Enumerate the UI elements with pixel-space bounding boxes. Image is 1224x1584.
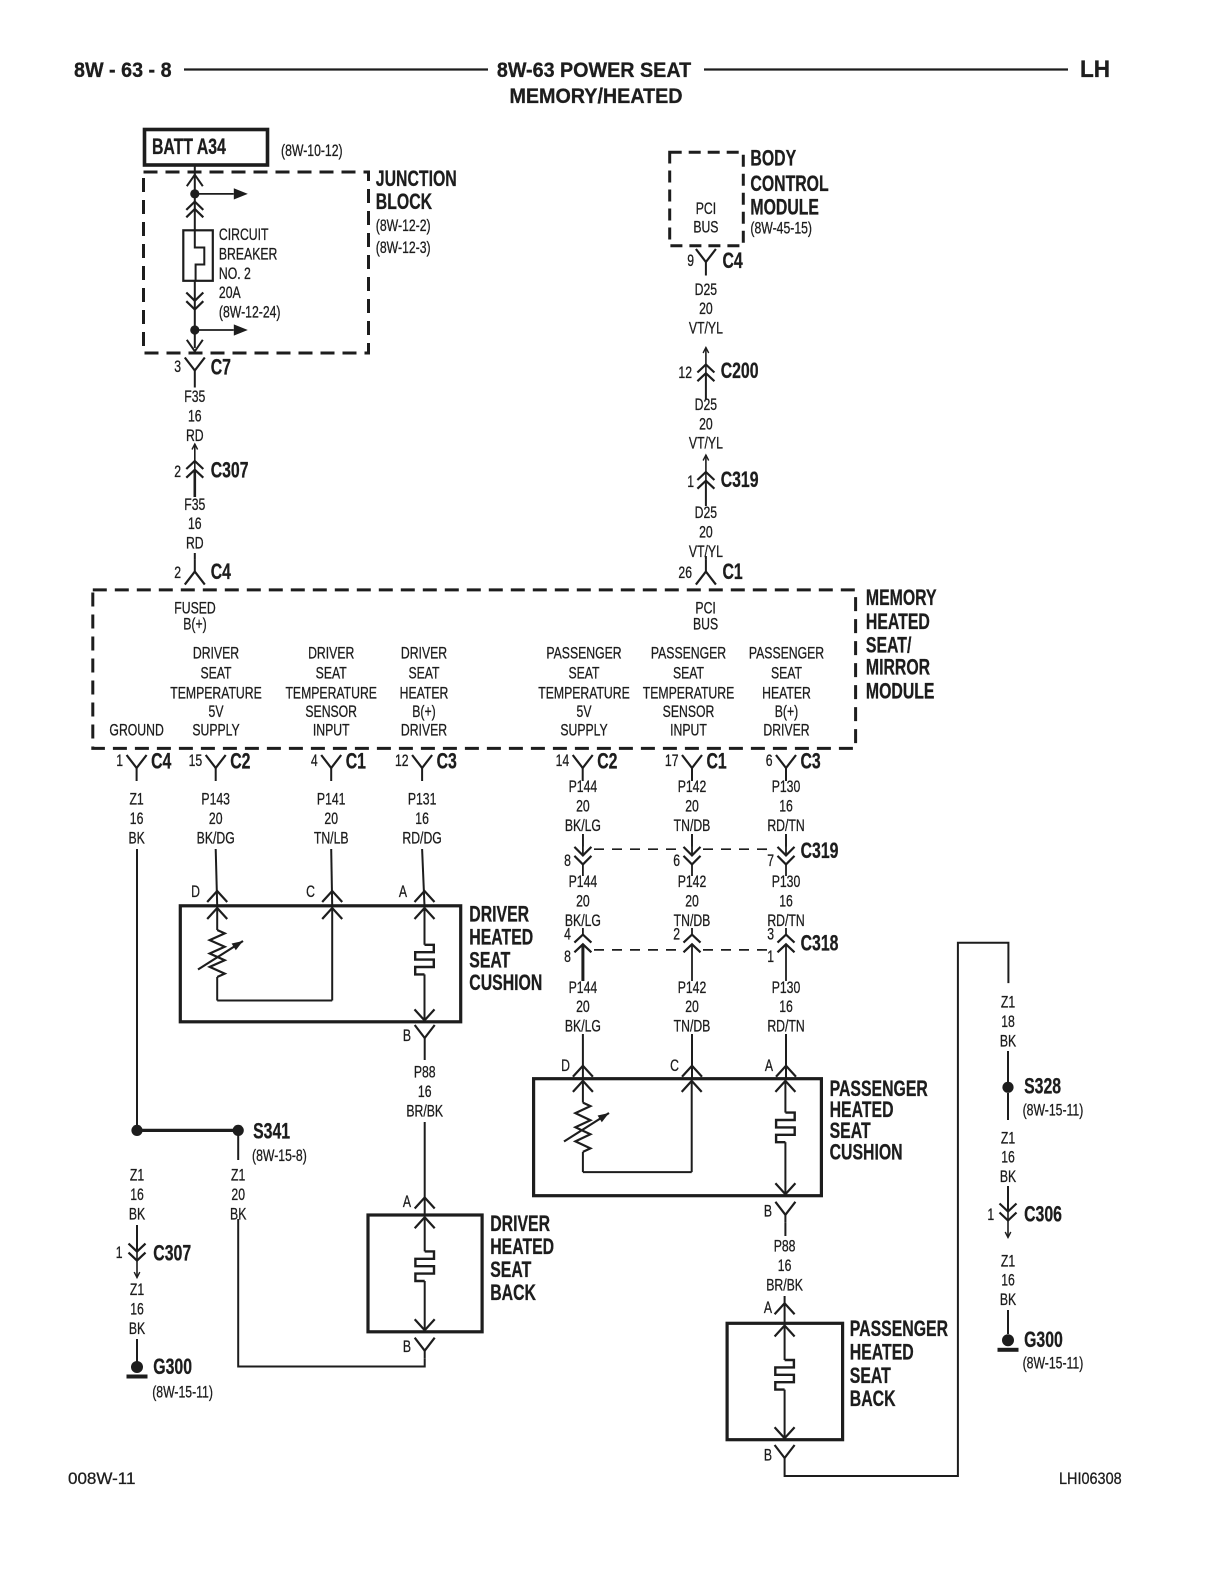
svg-text:MIRROR: MIRROR <box>866 656 930 680</box>
svg-text:VT/YL: VT/YL <box>689 435 723 453</box>
svg-text:BACK: BACK <box>850 1388 896 1412</box>
svg-text:5V: 5V <box>209 703 224 721</box>
svg-text:C2: C2 <box>597 750 617 774</box>
svg-text:C7: C7 <box>211 356 231 380</box>
svg-text:(8W-45-15): (8W-45-15) <box>750 220 812 238</box>
svg-text:16: 16 <box>778 1257 792 1275</box>
svg-text:16: 16 <box>779 893 793 911</box>
svg-text:8: 8 <box>564 852 571 870</box>
svg-text:P142: P142 <box>678 778 707 796</box>
svg-text:DRIVER: DRIVER <box>401 722 447 740</box>
svg-text:20A: 20A <box>219 284 241 302</box>
svg-text:BATT A34: BATT A34 <box>152 136 226 160</box>
svg-text:F35: F35 <box>184 496 205 514</box>
svg-text:HEATED: HEATED <box>469 926 533 950</box>
svg-text:Z1: Z1 <box>1001 1130 1015 1148</box>
svg-text:BK: BK <box>129 1320 145 1338</box>
svg-text:20: 20 <box>699 416 713 434</box>
svg-text:3: 3 <box>174 358 181 376</box>
svg-text:BK: BK <box>128 830 144 848</box>
svg-text:SENSOR: SENSOR <box>663 703 715 721</box>
svg-text:SEAT: SEAT <box>316 665 347 683</box>
svg-text:16: 16 <box>130 810 144 828</box>
svg-text:12: 12 <box>395 752 409 770</box>
svg-text:S328: S328 <box>1024 1075 1061 1099</box>
svg-text:C1: C1 <box>707 750 728 774</box>
svg-text:D25: D25 <box>695 504 717 522</box>
svg-text:(8W-12-3): (8W-12-3) <box>376 239 431 257</box>
svg-text:MEMORY: MEMORY <box>866 586 937 610</box>
svg-text:12: 12 <box>678 364 692 382</box>
svg-text:2: 2 <box>174 463 181 481</box>
svg-text:16: 16 <box>1001 1272 1015 1290</box>
svg-text:PASSENGER: PASSENGER <box>850 1318 948 1342</box>
svg-text:SEAT: SEAT <box>673 665 704 683</box>
svg-text:20: 20 <box>576 893 590 911</box>
svg-text:MODULE: MODULE <box>750 196 819 220</box>
svg-text:16: 16 <box>418 1083 432 1101</box>
svg-text:CIRCUIT: CIRCUIT <box>219 226 269 244</box>
svg-text:(8W-10-12): (8W-10-12) <box>281 142 343 160</box>
svg-text:C4: C4 <box>723 250 744 274</box>
svg-text:BREAKER: BREAKER <box>219 246 277 264</box>
svg-text:8W-63 POWER SEAT: 8W-63 POWER SEAT <box>497 59 692 82</box>
svg-text:(8W-15-11): (8W-15-11) <box>1023 1355 1084 1373</box>
svg-text:1: 1 <box>767 948 774 966</box>
svg-text:20: 20 <box>231 1186 245 1204</box>
svg-text:P141: P141 <box>317 791 346 809</box>
svg-text:SUPPLY: SUPPLY <box>192 722 239 740</box>
svg-text:16: 16 <box>130 1301 144 1319</box>
svg-text:BUS: BUS <box>693 219 718 237</box>
svg-text:A: A <box>765 1057 773 1075</box>
svg-text:(8W-15-8): (8W-15-8) <box>252 1147 307 1165</box>
svg-text:SEAT/: SEAT/ <box>866 634 912 658</box>
svg-text:C: C <box>306 883 315 901</box>
svg-text:SEAT: SEAT <box>408 665 439 683</box>
svg-text:C4: C4 <box>151 750 172 774</box>
svg-text:20: 20 <box>576 998 590 1016</box>
svg-text:B: B <box>403 1338 411 1356</box>
svg-text:A: A <box>403 1193 411 1211</box>
svg-text:TEMPERATURE: TEMPERATURE <box>643 685 735 703</box>
svg-text:HEATED: HEATED <box>866 611 930 635</box>
svg-text:(8W-12-24): (8W-12-24) <box>219 304 281 322</box>
svg-text:20: 20 <box>576 798 590 816</box>
svg-text:B: B <box>764 1203 772 1221</box>
svg-text:P143: P143 <box>201 791 230 809</box>
svg-text:BUS: BUS <box>693 616 718 634</box>
svg-text:BK/DG: BK/DG <box>197 830 235 848</box>
svg-text:BR/BK: BR/BK <box>766 1277 803 1295</box>
svg-text:GROUND: GROUND <box>109 722 163 740</box>
svg-text:16: 16 <box>1001 1149 1015 1167</box>
svg-text:16: 16 <box>188 515 202 533</box>
svg-text:Z1: Z1 <box>129 791 143 809</box>
svg-text:SEAT: SEAT <box>771 665 802 683</box>
svg-text:DRIVER: DRIVER <box>401 645 447 663</box>
svg-text:JUNCTION: JUNCTION <box>376 168 457 192</box>
svg-text:3: 3 <box>767 926 774 944</box>
svg-text:SEAT: SEAT <box>469 949 510 973</box>
svg-text:7: 7 <box>767 852 774 870</box>
svg-text:(8W-15-11): (8W-15-11) <box>152 1384 213 1402</box>
svg-text:RD/TN: RD/TN <box>767 1018 804 1036</box>
svg-text:(8W-15-11): (8W-15-11) <box>1023 1102 1084 1120</box>
svg-text:VT/YL: VT/YL <box>689 320 723 338</box>
svg-text:20: 20 <box>209 810 223 828</box>
svg-text:1: 1 <box>116 752 123 770</box>
svg-text:BK/LG: BK/LG <box>565 817 601 835</box>
svg-text:S341: S341 <box>253 1120 290 1144</box>
svg-text:20: 20 <box>685 798 699 816</box>
svg-text:20: 20 <box>685 998 699 1016</box>
svg-text:INPUT: INPUT <box>670 722 707 740</box>
svg-text:SEAT: SEAT <box>568 665 599 683</box>
svg-text:C4: C4 <box>211 561 232 585</box>
svg-text:SEAT: SEAT <box>200 665 231 683</box>
svg-text:INPUT: INPUT <box>313 722 350 740</box>
svg-text:DRIVER: DRIVER <box>763 722 809 740</box>
svg-text:A: A <box>764 1299 772 1317</box>
svg-text:B: B <box>764 1447 772 1465</box>
svg-text:BK: BK <box>129 1206 145 1224</box>
svg-text:B(+): B(+) <box>775 703 798 721</box>
svg-text:16: 16 <box>188 408 202 426</box>
svg-text:CUSHION: CUSHION <box>469 972 542 996</box>
svg-text:G300: G300 <box>1024 1329 1063 1353</box>
svg-text:C319: C319 <box>721 469 759 493</box>
svg-text:P142: P142 <box>678 979 707 997</box>
svg-text:BR/BK: BR/BK <box>406 1103 443 1121</box>
svg-text:P130: P130 <box>772 873 801 891</box>
svg-text:NO. 2: NO. 2 <box>219 265 251 283</box>
svg-text:C1: C1 <box>723 561 744 585</box>
svg-text:PASSENGER: PASSENGER <box>546 645 621 663</box>
svg-text:P144: P144 <box>569 778 598 796</box>
svg-text:D25: D25 <box>695 396 717 414</box>
svg-text:9: 9 <box>687 252 694 270</box>
svg-text:P144: P144 <box>569 873 598 891</box>
svg-text:B(+): B(+) <box>412 703 435 721</box>
svg-text:P88: P88 <box>414 1064 436 1082</box>
svg-text:(8W-12-2): (8W-12-2) <box>376 217 431 235</box>
svg-text:008W-11: 008W-11 <box>68 1469 135 1488</box>
svg-text:BODY: BODY <box>750 147 796 171</box>
svg-text:SEAT: SEAT <box>850 1364 891 1388</box>
svg-text:TEMPERATURE: TEMPERATURE <box>538 685 630 703</box>
svg-text:SEAT: SEAT <box>490 1259 531 1283</box>
svg-text:C2: C2 <box>230 750 250 774</box>
svg-text:A: A <box>399 883 407 901</box>
svg-text:C319: C319 <box>801 840 839 864</box>
svg-text:B(+): B(+) <box>183 616 206 634</box>
svg-text:Z1: Z1 <box>130 1281 144 1299</box>
svg-text:C306: C306 <box>1024 1203 1062 1227</box>
svg-text:4: 4 <box>564 926 571 944</box>
svg-text:RD: RD <box>186 535 204 553</box>
svg-text:B: B <box>403 1027 411 1045</box>
svg-text:HEATER: HEATER <box>400 685 449 703</box>
svg-text:DRIVER: DRIVER <box>469 903 529 927</box>
svg-text:CONTROL: CONTROL <box>750 172 829 196</box>
svg-text:PASSENGER: PASSENGER <box>651 645 726 663</box>
svg-text:5V: 5V <box>577 703 592 721</box>
svg-text:HEATER: HEATER <box>762 685 811 703</box>
svg-text:BK/LG: BK/LG <box>565 1018 601 1036</box>
svg-text:C3: C3 <box>801 750 821 774</box>
svg-text:Z1: Z1 <box>231 1167 245 1185</box>
svg-text:18: 18 <box>1001 1013 1015 1031</box>
svg-text:Z1: Z1 <box>1001 994 1015 1012</box>
svg-text:BK: BK <box>230 1206 246 1224</box>
svg-text:BACK: BACK <box>490 1282 536 1306</box>
svg-text:MEMORY/HEATED: MEMORY/HEATED <box>509 85 682 108</box>
svg-text:16: 16 <box>779 798 793 816</box>
svg-text:BK: BK <box>1000 1168 1016 1186</box>
svg-text:C: C <box>670 1057 679 1075</box>
svg-text:15: 15 <box>189 752 203 770</box>
svg-text:SUPPLY: SUPPLY <box>560 722 607 740</box>
svg-text:MODULE: MODULE <box>866 680 935 704</box>
svg-text:1: 1 <box>116 1244 123 1262</box>
svg-text:4: 4 <box>311 752 318 770</box>
svg-text:RD/TN: RD/TN <box>767 817 804 835</box>
svg-text:CUSHION: CUSHION <box>830 1141 903 1165</box>
svg-text:20: 20 <box>685 893 699 911</box>
svg-text:DRIVER: DRIVER <box>308 645 354 663</box>
svg-text:F35: F35 <box>184 388 205 406</box>
svg-text:26: 26 <box>678 564 692 582</box>
svg-text:D: D <box>191 883 200 901</box>
svg-text:8: 8 <box>564 948 571 966</box>
svg-text:P88: P88 <box>774 1238 796 1256</box>
svg-text:HEATED: HEATED <box>850 1341 914 1365</box>
svg-text:6: 6 <box>673 852 680 870</box>
svg-text:8W - 63 - 8: 8W - 63 - 8 <box>74 59 172 82</box>
svg-text:P130: P130 <box>772 778 801 796</box>
svg-text:2: 2 <box>673 926 680 944</box>
svg-text:C307: C307 <box>211 459 249 483</box>
svg-text:TN/LB: TN/LB <box>314 830 349 848</box>
svg-text:C1: C1 <box>346 750 367 774</box>
svg-text:C318: C318 <box>801 932 839 956</box>
svg-text:1: 1 <box>987 1206 994 1224</box>
svg-text:1: 1 <box>687 473 694 491</box>
svg-text:6: 6 <box>766 752 773 770</box>
svg-text:16: 16 <box>130 1186 144 1204</box>
svg-text:P130: P130 <box>772 979 801 997</box>
svg-text:PASSENGER: PASSENGER <box>749 645 824 663</box>
svg-text:D25: D25 <box>695 281 717 299</box>
svg-text:DRIVER: DRIVER <box>193 645 239 663</box>
svg-text:P142: P142 <box>678 873 707 891</box>
svg-text:SENSOR: SENSOR <box>305 703 357 721</box>
svg-text:BK: BK <box>1000 1033 1016 1051</box>
svg-text:G300: G300 <box>153 1356 192 1380</box>
svg-text:LHI06308: LHI06308 <box>1059 1470 1122 1488</box>
svg-text:C307: C307 <box>153 1242 191 1266</box>
svg-text:Z1: Z1 <box>130 1167 144 1185</box>
svg-text:HEATED: HEATED <box>490 1236 554 1260</box>
svg-text:P144: P144 <box>569 979 598 997</box>
svg-text:C3: C3 <box>437 750 457 774</box>
svg-text:BK: BK <box>1000 1291 1016 1309</box>
svg-text:TN/DB: TN/DB <box>674 1018 711 1036</box>
svg-text:Z1: Z1 <box>1001 1253 1015 1271</box>
svg-text:P131: P131 <box>408 791 437 809</box>
svg-text:LH: LH <box>1080 55 1110 82</box>
svg-text:2: 2 <box>174 564 181 582</box>
svg-text:17: 17 <box>665 752 679 770</box>
svg-text:TEMPERATURE: TEMPERATURE <box>285 685 377 703</box>
svg-text:TEMPERATURE: TEMPERATURE <box>170 685 262 703</box>
svg-text:C200: C200 <box>721 360 759 384</box>
svg-text:14: 14 <box>556 752 570 770</box>
svg-text:20: 20 <box>699 524 713 542</box>
svg-text:TN/DB: TN/DB <box>674 817 711 835</box>
svg-text:RD/DG: RD/DG <box>402 830 441 848</box>
svg-text:16: 16 <box>415 810 429 828</box>
svg-text:20: 20 <box>324 810 338 828</box>
svg-text:BLOCK: BLOCK <box>376 191 432 215</box>
svg-text:PCI: PCI <box>696 200 716 218</box>
svg-text:D: D <box>561 1057 570 1075</box>
svg-text:DRIVER: DRIVER <box>490 1213 550 1237</box>
svg-text:16: 16 <box>779 998 793 1016</box>
svg-text:20: 20 <box>699 300 713 318</box>
